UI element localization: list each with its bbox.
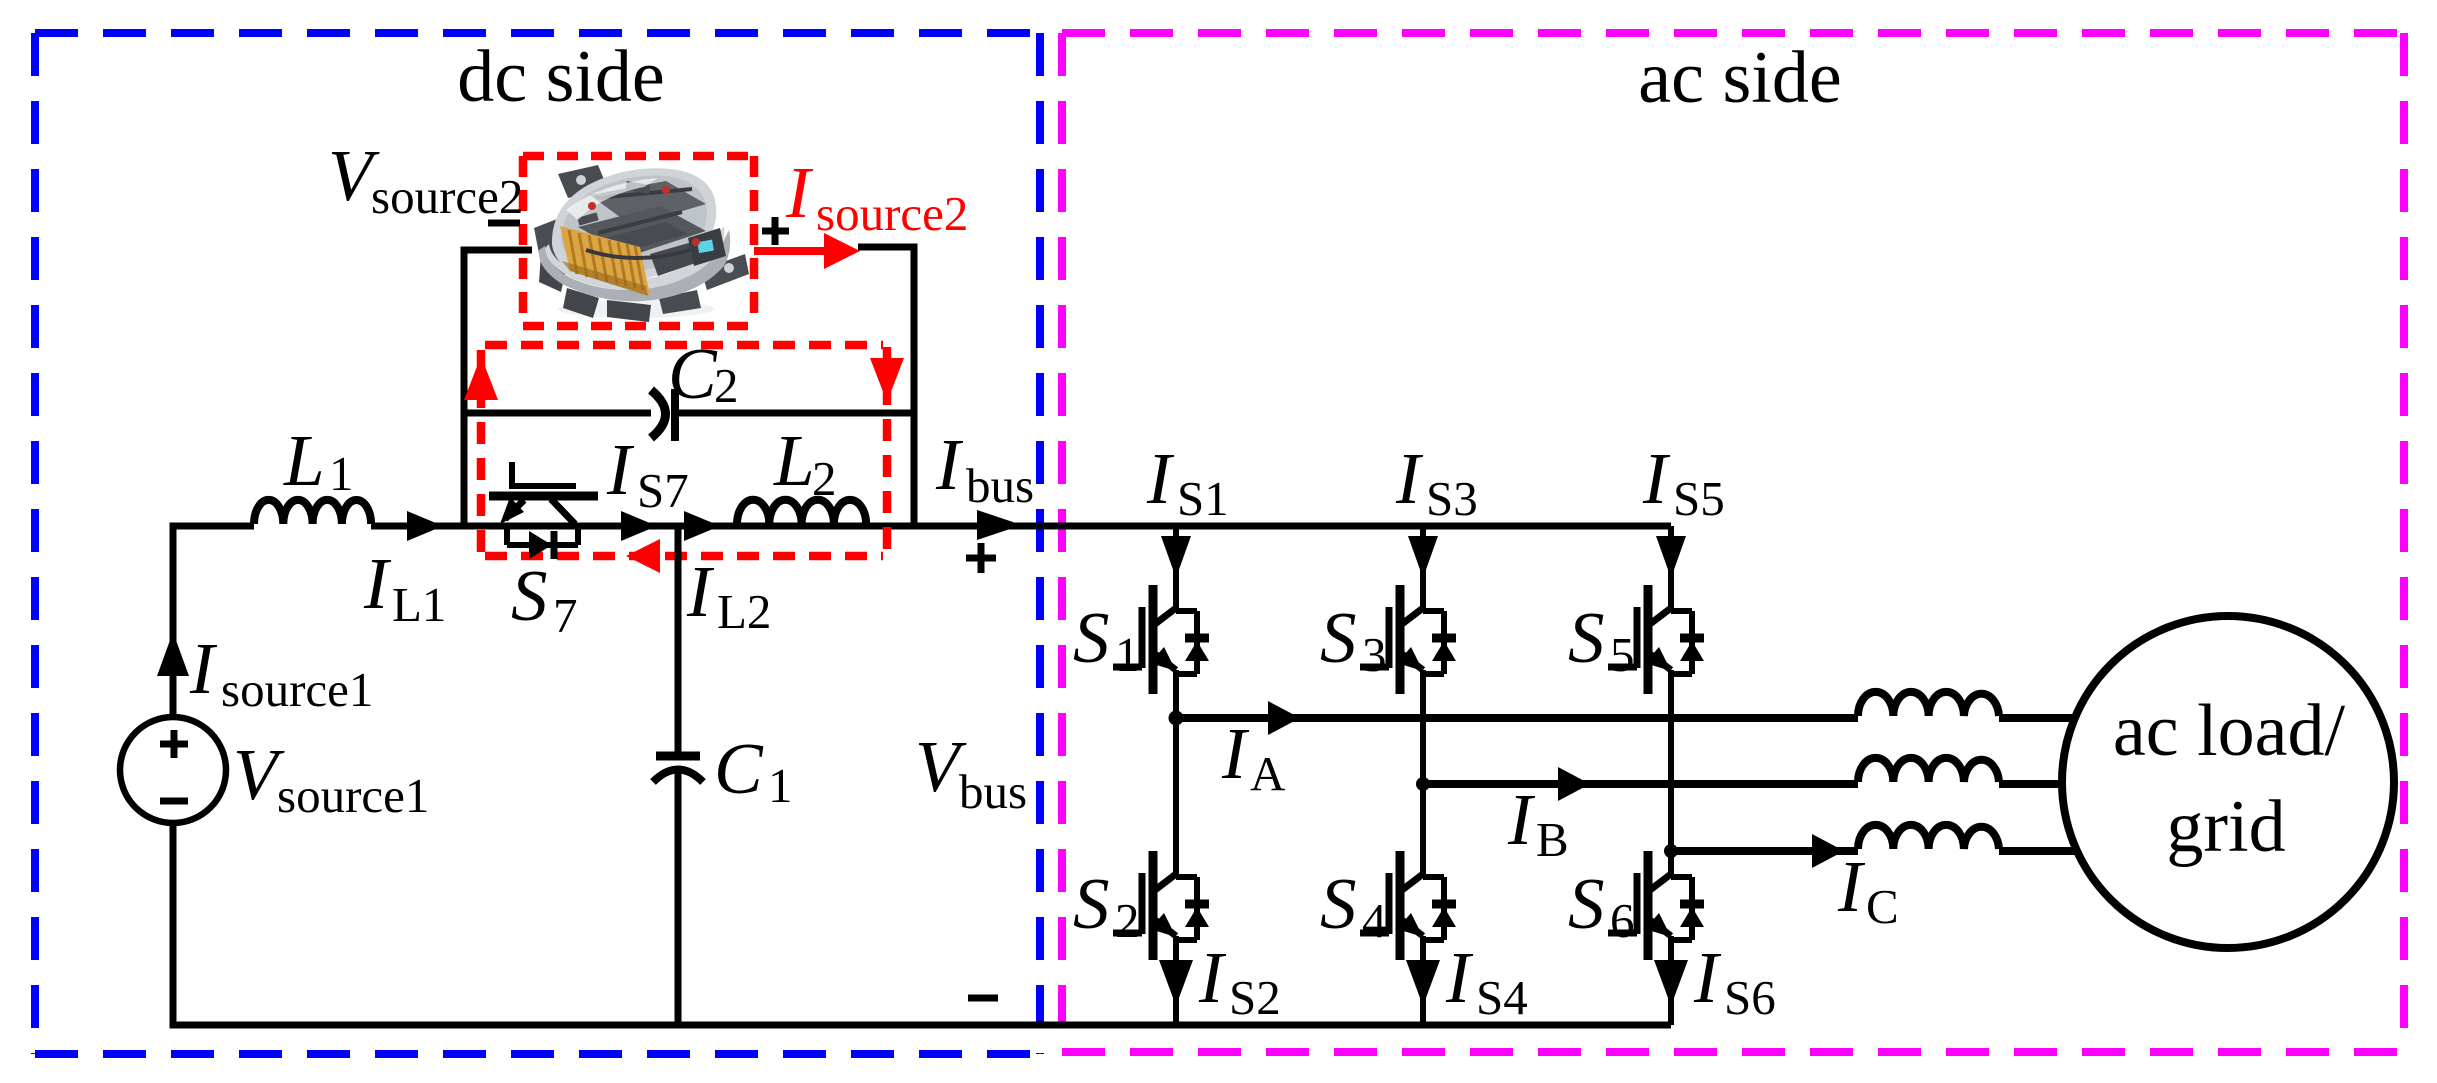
IGBT S2 <box>1113 851 1209 960</box>
inverter leg C wire <box>1668 526 1674 1025</box>
minus battery <box>488 220 520 227</box>
node A junction dot <box>1169 711 1184 726</box>
label S5 <box>1568 597 1635 682</box>
svg-text:A: A <box>1250 746 1286 801</box>
main bus wire <box>420 523 1671 530</box>
wire: left loop vertical + bottom rail <box>173 526 1671 1025</box>
capacitor C1 branch <box>653 526 703 1025</box>
svg-text:L: L <box>773 420 815 501</box>
phase line B <box>1423 780 1858 788</box>
inverter leg B wire <box>1420 526 1426 1025</box>
phase inductor C <box>1858 825 2078 851</box>
label S6 <box>1568 863 1635 948</box>
svg-text:S7: S7 <box>637 463 689 518</box>
label I_S4 <box>1445 937 1528 1025</box>
label S1 <box>1073 597 1140 682</box>
label I_S6 <box>1693 937 1776 1025</box>
arrow I_bus <box>977 510 1022 540</box>
arrow I_S1 <box>1161 536 1191 578</box>
arrow I_source2 red <box>754 233 860 269</box>
label I_A <box>1221 713 1286 801</box>
svg-text:4: 4 <box>1362 893 1387 948</box>
phase line A <box>1176 714 1858 722</box>
arrow I_L2 <box>684 511 720 541</box>
svg-text:S: S <box>1568 597 1605 678</box>
svg-text:dc side: dc side <box>457 36 665 118</box>
svg-text:L2: L2 <box>717 584 771 639</box>
svg-text:ac side: ac side <box>1638 37 1841 119</box>
arrow I_S6 <box>1654 960 1688 1006</box>
arrow I_L1 <box>407 511 443 541</box>
svg-text:I: I <box>1146 438 1175 519</box>
IGBT S6 <box>1608 851 1704 960</box>
inductor L1 <box>254 500 420 526</box>
svg-text:bus: bus <box>959 764 1027 819</box>
svg-text:source1: source1 <box>277 768 429 823</box>
arrow I_S3 <box>1408 536 1438 578</box>
label S3 <box>1320 597 1387 682</box>
battery left terminal wire <box>464 250 532 526</box>
svg-text:I: I <box>1198 937 1227 1018</box>
IGBT S1 <box>1113 585 1209 694</box>
svg-text:source2: source2 <box>371 169 523 224</box>
label I_L1 <box>363 543 446 632</box>
svg-text:S6: S6 <box>1724 970 1776 1025</box>
red dashed current loop <box>464 345 904 573</box>
svg-text:C: C <box>1866 879 1899 934</box>
arrow I_S5 <box>1656 536 1686 578</box>
svg-text:I: I <box>935 424 964 505</box>
svg-text:S: S <box>1073 597 1110 678</box>
voltage source V_source1 <box>120 717 226 823</box>
label I_source1 <box>189 628 373 717</box>
phase line C <box>1671 847 1858 855</box>
label L1 <box>283 420 354 501</box>
svg-text:bus: bus <box>966 458 1034 513</box>
label I_S7 <box>606 429 689 518</box>
svg-text:I: I <box>189 628 218 709</box>
svg-text:2: 2 <box>714 358 739 413</box>
capacitor C2 <box>651 389 675 441</box>
label I_S2 <box>1198 937 1281 1025</box>
plus V_bus <box>966 543 996 573</box>
label V_bus <box>915 726 1027 819</box>
svg-text:I: I <box>1642 438 1671 519</box>
label S7 <box>511 555 578 643</box>
svg-text:I: I <box>686 551 715 632</box>
svg-text:I: I <box>1837 846 1866 927</box>
label I_source2 red <box>785 152 968 241</box>
svg-text:S3: S3 <box>1426 471 1478 526</box>
svg-text:I: I <box>1693 937 1722 1018</box>
label I_S3 <box>1395 438 1478 526</box>
svg-text:I: I <box>785 152 814 233</box>
inductor L2 <box>737 500 866 524</box>
svg-text:1: 1 <box>329 446 354 501</box>
svg-text:S5: S5 <box>1673 471 1725 526</box>
svg-text:I: I <box>363 543 392 624</box>
IGBT S5 <box>1608 585 1704 694</box>
dc side boundary box <box>35 33 1040 1054</box>
minus V_bus <box>968 995 998 1002</box>
svg-text:S: S <box>511 555 548 636</box>
switch S7 <box>489 462 598 559</box>
svg-text:S: S <box>1568 863 1605 944</box>
label C2 <box>668 333 739 414</box>
label S2 <box>1073 863 1140 948</box>
svg-text:1: 1 <box>1115 627 1140 682</box>
ac side boundary box <box>1062 33 2404 1052</box>
svg-text:I: I <box>606 429 635 510</box>
svg-text:S4: S4 <box>1476 970 1528 1025</box>
arrow I_B <box>1558 767 1590 801</box>
label L2 <box>773 420 837 506</box>
svg-text:C: C <box>714 728 764 809</box>
svg-text:L: L <box>283 420 325 501</box>
svg-text:S: S <box>1320 863 1357 944</box>
plus battery <box>762 217 789 245</box>
arrow I_S7 <box>621 511 657 541</box>
label S4 <box>1320 863 1387 948</box>
svg-text:I: I <box>1395 438 1424 519</box>
svg-text:3: 3 <box>1362 627 1387 682</box>
label V_source2 <box>328 135 523 224</box>
svg-text:S: S <box>1320 597 1357 678</box>
phase inductor A <box>1858 692 2075 718</box>
inverter leg A wire <box>1173 526 1179 1025</box>
label I_S1 <box>1146 438 1229 526</box>
svg-text:1: 1 <box>768 758 793 813</box>
svg-text:5: 5 <box>1610 627 1635 682</box>
node B junction dot <box>1416 777 1430 791</box>
svg-text:source1: source1 <box>221 662 373 717</box>
arrow I_S2 <box>1159 960 1193 1006</box>
label V_source1 <box>233 734 429 823</box>
svg-text:2: 2 <box>812 451 837 506</box>
battery right terminal wire <box>858 247 914 526</box>
battery photo illustration <box>534 165 749 322</box>
phase inductor B <box>1858 758 2070 784</box>
node C junction dot <box>1664 844 1678 858</box>
label I_B <box>1507 779 1569 867</box>
svg-text:2: 2 <box>1115 893 1140 948</box>
label I_S5 <box>1642 438 1725 526</box>
svg-text:L1: L1 <box>392 577 446 632</box>
svg-text:I: I <box>1221 713 1250 794</box>
arrow I_C <box>1812 834 1844 868</box>
svg-text:source2: source2 <box>816 186 968 241</box>
ac load/grid circle <box>2062 616 2394 948</box>
arrow I_S4 <box>1406 960 1440 1006</box>
red dashed battery box <box>523 152 754 161</box>
label I_L2 <box>686 551 771 639</box>
svg-text:B: B <box>1536 812 1569 867</box>
IGBT S3 <box>1360 585 1456 694</box>
svg-text:grid: grid <box>2166 786 2285 868</box>
label C1 <box>714 728 793 813</box>
svg-text:ac load/: ac load/ <box>2113 690 2346 772</box>
svg-text:I: I <box>1507 779 1536 860</box>
label I_bus <box>935 424 1034 513</box>
arrow I_A <box>1268 701 1300 735</box>
label I_C <box>1837 846 1899 934</box>
svg-text:I: I <box>1445 937 1474 1018</box>
svg-text:6: 6 <box>1610 893 1635 948</box>
arrow I_source1 <box>157 632 189 676</box>
svg-text:S: S <box>1073 863 1110 944</box>
IGBT S4 <box>1360 851 1456 960</box>
svg-text:S2: S2 <box>1229 970 1281 1025</box>
wire with C2 <box>464 410 914 417</box>
svg-text:7: 7 <box>553 588 578 643</box>
svg-text:S1: S1 <box>1177 471 1229 526</box>
